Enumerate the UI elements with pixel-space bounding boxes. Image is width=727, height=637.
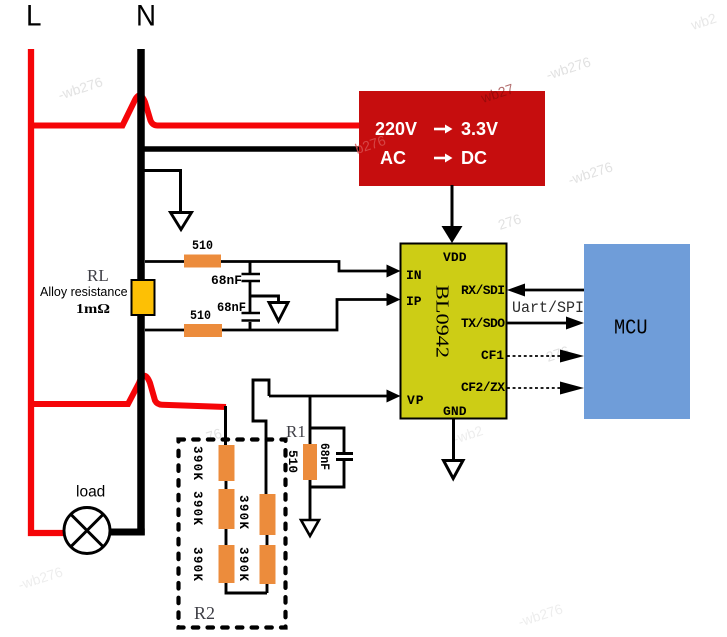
svg-text:VDD: VDD [443,250,467,265]
svg-text:510: 510 [190,309,211,323]
svg-text:3.3V: 3.3V [461,119,498,139]
svg-text:GND: GND [443,404,467,419]
svg-text:wb2: wb2 [688,10,719,34]
svg-text:390K: 390K [190,491,204,525]
svg-text:RL: RL [87,266,109,285]
svg-text:IP: IP [406,294,422,309]
svg-text:390K: 390K [190,446,204,480]
svg-text:-wb276: -wb276 [16,563,65,592]
svg-text:276: 276 [496,210,523,233]
svg-text:390K: 390K [236,495,250,529]
svg-text:Uart/SPI: Uart/SPI [512,299,584,317]
svg-text:DC: DC [461,148,487,168]
svg-text:-wb276: -wb276 [566,158,615,187]
svg-text:76: 76 [204,425,224,445]
svg-text:-wb276: -wb276 [516,600,565,629]
svg-text:L: L [26,0,42,33]
svg-text:Alloy resistance: Alloy resistance [40,285,128,299]
svg-text:68nF: 68nF [317,443,331,470]
svg-text:N: N [136,0,156,33]
svg-text:1mΩ: 1mΩ [76,302,110,317]
svg-text:390K: 390K [236,547,250,581]
svg-text:IN: IN [406,268,422,283]
svg-text:R2: R2 [194,603,215,623]
svg-text:VP: VP [407,393,424,408]
svg-text:510: 510 [192,239,213,253]
svg-text:BL0942: BL0942 [433,285,453,358]
svg-text:68nF: 68nF [217,301,246,315]
svg-text:CF1: CF1 [481,348,504,363]
svg-text:390K: 390K [190,547,204,581]
svg-text:-wb2: -wb2 [451,422,485,447]
svg-text:-wb276: -wb276 [56,73,105,102]
svg-text:load: load [76,484,105,501]
svg-text:RX/SDI: RX/SDI [461,283,505,298]
svg-text:TX/SDO: TX/SDO [461,316,505,331]
svg-text:AC: AC [380,148,406,168]
svg-text:R1: R1 [286,422,306,441]
svg-text:68nF: 68nF [211,274,242,288]
svg-text:MCU: MCU [614,317,648,341]
svg-text:CF2/ZX: CF2/ZX [461,380,505,395]
svg-text:-wb276: -wb276 [544,53,593,82]
